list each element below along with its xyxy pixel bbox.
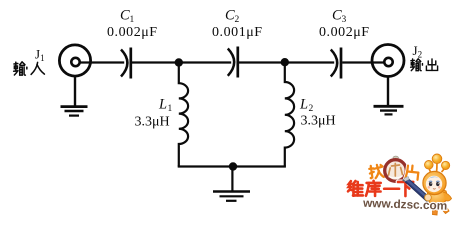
connector J2 (BNC jack, outer circle) xyxy=(372,45,404,77)
svg-text:2: 2 xyxy=(235,15,240,25)
svg-text:0.002μF: 0.002μF xyxy=(319,25,370,40)
svg-text:L: L xyxy=(299,97,308,113)
mascot legs xyxy=(432,205,438,215)
capacitor C1 (curved plate) xyxy=(121,50,127,77)
connector J1 (BNC jack, outer circle) xyxy=(59,45,90,76)
capacitor C2 (curved plate) xyxy=(228,49,234,76)
inductor L1 xyxy=(179,66,188,167)
wire J1 to C1 xyxy=(79,61,124,63)
capacitor C2 (flat plate) xyxy=(236,47,239,78)
mascot body xyxy=(427,189,447,205)
label 输出 (output) xyxy=(411,59,438,71)
svg-text:0.001μF: 0.001μF xyxy=(212,25,263,40)
node C junction dot (bottom) xyxy=(229,162,237,170)
svg-text:L: L xyxy=(158,97,167,113)
mascot mouth xyxy=(433,188,436,191)
mascot head hood xyxy=(423,171,446,194)
svg-text:www.dzsc.com: www.dzsc.com xyxy=(362,196,448,213)
svg-text:3.3μH: 3.3μH xyxy=(135,115,170,130)
mascot face xyxy=(426,176,442,192)
watermark lens circle with 芯 xyxy=(385,156,407,181)
wire C1 to C2 xyxy=(132,61,231,63)
wire stem to ground G3 xyxy=(231,167,233,192)
inductor L2 xyxy=(285,66,294,167)
wire J2 stem to ground xyxy=(387,77,389,107)
wire J1 stem to ground xyxy=(74,76,76,107)
mascot right arm xyxy=(443,192,452,201)
mascot crown balls xyxy=(425,161,434,170)
capacitor C1 (flat plate) xyxy=(129,48,132,79)
svg-text:3: 3 xyxy=(342,15,347,25)
svg-text:3.3μH: 3.3μH xyxy=(301,114,336,129)
wire C2 to C3 xyxy=(239,61,334,63)
svg-text:C: C xyxy=(225,8,235,24)
connector J2 center pin xyxy=(384,58,392,66)
connector J1 center pin xyxy=(71,58,79,66)
svg-text:C: C xyxy=(120,8,130,24)
svg-text:0.002μF: 0.002μF xyxy=(107,25,158,40)
watermark text 维库一下 (red) xyxy=(348,181,413,196)
bottom wire L1 to L2 xyxy=(178,165,286,167)
node A junction dot xyxy=(175,58,183,66)
watermark logo 找 (orange outlined) xyxy=(369,164,384,179)
ground G3 xyxy=(213,192,250,201)
mascot hand on pen xyxy=(425,194,432,201)
mascot hair fringe xyxy=(428,177,441,180)
capacitor C3 (curved plate) xyxy=(331,50,337,77)
capacitor C3 (flat plate) xyxy=(340,48,343,79)
svg-text:2: 2 xyxy=(309,104,314,114)
watermark 片 (orange outlined) xyxy=(405,165,419,180)
ground G2 xyxy=(374,106,404,114)
mascot cheeks xyxy=(428,186,431,189)
node B junction dot xyxy=(281,58,289,66)
label 输入 (input) xyxy=(14,62,45,75)
ground G1 xyxy=(61,107,88,116)
mascot crown stalks xyxy=(429,162,446,173)
svg-text:C: C xyxy=(332,8,342,24)
svg-text:1: 1 xyxy=(130,15,135,25)
wire C3 to J2 xyxy=(342,61,384,63)
svg-text:1: 1 xyxy=(168,104,173,114)
mascot pen xyxy=(402,177,431,202)
mascot eyes xyxy=(429,180,432,183)
